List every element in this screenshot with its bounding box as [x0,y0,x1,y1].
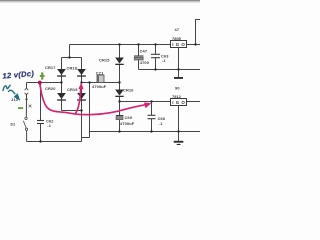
node C62 bottom junction [39,140,41,142]
wire bridge top bar [62,57,82,59]
svg-text:4700uF: 4700uF [92,84,107,89]
svg-text:C69: C69 [125,115,133,120]
node bridge bottom [80,109,82,111]
wire mid-left AC input [27,82,62,84]
svg-text:47: 47 [175,27,180,32]
wire 7812 output [187,101,201,103]
wire C63 column [155,45,157,70]
wire 7805 G column [178,48,180,78]
svg-text:CR17: CR17 [45,65,56,70]
annotation pink curve main [40,82,146,114]
connector J13 [25,89,28,95]
node top rail CR15 [118,43,120,45]
svg-text:7805: 7805 [172,36,182,41]
node bridge right mid [80,81,82,83]
diode CR17 [57,69,66,77]
wire CR15 CR16 column [119,45,121,102]
diode CR19 [77,93,86,101]
svg-text:C47: C47 [140,48,148,53]
wire S1 column lower [26,130,28,141]
annotation teal arrowhead [14,93,21,101]
node bottom rail C69 [118,130,120,132]
wire C66 column [151,102,153,132]
wire neg jog [82,137,90,139]
annotation green plus [40,72,45,79]
svg-text:7812: 7812 [172,94,182,99]
wire bridge right column [81,58,83,111]
svg-text:CR16: CR16 [123,88,134,93]
node mid rail 7805 gnd [177,68,179,70]
wire top rail right segment [187,44,201,46]
capacitor C21 body [97,75,104,83]
wire C62 riser [40,83,42,142]
switch S1 [23,117,27,130]
ground 7805 [174,77,183,79]
ground 7812 [174,141,184,145]
svg-text:4700: 4700 [140,60,149,65]
wire bridge top feed [69,45,71,58]
node bridge left mid [60,81,62,83]
svg-text:CR18: CR18 [67,65,78,70]
regulator U 7805 box [171,41,187,48]
wire 7812 G column [178,106,180,142]
node mid rail C63 [154,68,156,70]
regulator U 7812 box [171,99,187,106]
svg-text:CR20: CR20 [45,86,56,91]
wire bridge bottom bar [62,110,82,112]
node bottom rail C66 [150,130,152,132]
annotation green minus [18,107,23,109]
node 7812 input rail CR16 [118,100,120,102]
capacitor C63 plates [151,54,160,57]
svg-text:C21: C21 [96,71,104,76]
wire bottom ground rail [90,131,201,133]
node top rail C63 [154,43,156,45]
wire mid-right to CR column [82,82,120,84]
node top rail C47 [137,43,139,45]
top page border [0,0,200,1]
wire bottom-left AC [27,141,82,143]
node 7812 input rail C66 [150,100,152,102]
wire C47 column [138,45,140,70]
capacitor C66 plates [148,115,156,118]
wire C69 column [119,102,121,132]
wire bridge left column [61,58,63,111]
wire J13 to switch [25,94,27,117]
svg-text:I G O: I G O [172,42,185,47]
capacitor C62 plates [37,121,44,124]
diode CR20 [57,93,66,101]
wire top rail left segment [70,44,171,46]
node C21 junction [88,81,90,83]
svg-text:CR15: CR15 [99,58,110,63]
mark x [29,105,32,108]
node 7805 output [194,43,196,45]
capacitor C69 body [116,116,124,120]
diode CR16 [115,90,124,98]
svg-text:I G O: I G O [172,100,185,105]
wire 7805 output up corner [196,20,201,45]
wire 7812 input rail [120,101,171,103]
svg-text:4700uF: 4700uF [120,121,135,126]
capacitor C47 body [134,56,144,60]
annotation pink branch arrow [76,89,81,114]
labels [10,27,179,128]
diode CR15 [115,58,124,66]
annotation magenta node dot [38,81,42,85]
svg-text:S1: S1 [10,122,16,127]
connector J13 pin dot [25,98,27,100]
wire J13 column upper [26,83,28,89]
annotation pink arrowhead up [78,83,83,90]
wire bridge neg drop [81,111,83,142]
wire mid ground rail [139,69,201,71]
node bottom rail 7812 gnd [177,130,179,132]
node CR15 CR16 mid junction [118,81,120,83]
node bridge top [68,56,70,58]
svg-text:90: 90 [175,86,180,91]
diode CR18 [77,69,86,77]
annotation pink arrowhead right [144,102,151,108]
annotation teal scribble [3,85,15,94]
svg-text:CR19: CR19 [67,87,78,92]
wire C21 node riser down [89,83,91,138]
